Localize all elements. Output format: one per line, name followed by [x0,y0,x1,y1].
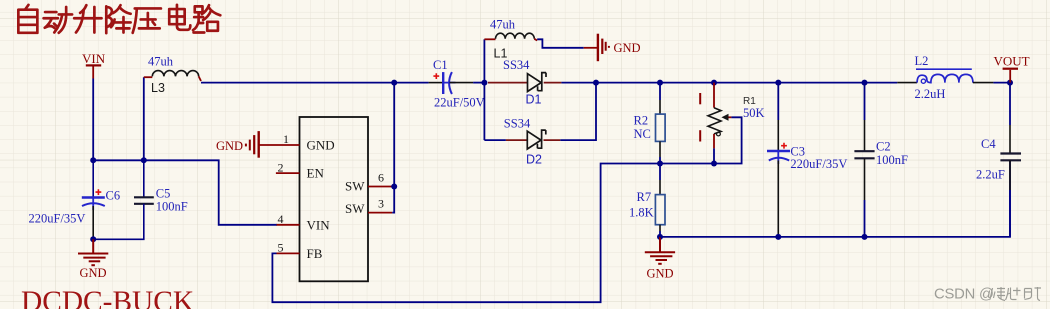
node junction R1 bottom [711,161,717,167]
svg-text:2: 2 [278,160,284,174]
svg-text:47uh: 47uh [148,55,174,69]
svg-text:CSDN @: CSDN @ [934,286,994,302]
op IC U1 body [300,117,369,281]
plus sign of C1 [433,73,439,79]
ground earth symbol left [78,239,108,265]
node junction R7 bottom rail [657,234,663,240]
svg-text:C4: C4 [981,137,996,151]
pin 1 GND [259,144,300,146]
svg-text:DCDC-BUCK: DCDC-BUCK [21,286,194,309]
node junction L3/C5 [141,157,147,163]
svg-text:220uF/35V: 220uF/35V [29,212,86,226]
node junction rail/R1 [711,80,717,86]
wire VIN vertical [92,79,94,161]
capacitor C2 [854,83,874,237]
wire R2 bottom to pot [660,163,714,165]
wire D2 branch left [484,139,506,141]
svg-text:GND: GND [307,138,335,153]
node junction C3 bottom [775,234,781,240]
svg-text:GND: GND [614,41,641,55]
svg-text:1: 1 [283,132,289,146]
wire L3 left leg [143,77,145,160]
pin 6 SW [368,186,392,188]
svg-text:D2: D2 [526,152,542,166]
svg-text:R2: R2 [634,113,649,127]
node junction C6/C5 ground [90,236,96,242]
svg-text:C6: C6 [106,188,121,202]
wire R1 wiper return [714,117,742,163]
svg-text:FB: FB [307,246,323,261]
diode D1 SS34 [488,73,561,92]
wire L2 to VOUT [993,82,1010,84]
power symbol GND at L1 [584,34,609,62]
svg-text:GND: GND [80,266,107,280]
capacitor C6 polarized [82,160,105,239]
node junction D1/D2 cathodes [593,80,599,86]
node junction rail/SW riser [391,80,397,86]
capacitor C5 [93,160,154,239]
svg-text:2.2uH: 2.2uH [915,87,946,101]
node junction rail/C2 [862,80,868,86]
node junction C2 bottom [862,234,868,240]
svg-text:C1: C1 [433,58,448,72]
wire SW pins to top rail [392,83,394,213]
title 自动升降压电路 (drawn as strokes) [18,5,220,33]
svg-text:100nF: 100nF [156,199,188,213]
potentiometer R1 50K [700,83,731,164]
node junction rail/R2 [657,80,663,86]
svg-text:1.8K: 1.8K [629,205,654,219]
diode D2 SS34 [506,130,560,149]
wire top rail to L2 [596,82,897,84]
svg-text:GND: GND [647,267,674,281]
svg-text:SW: SW [345,179,365,194]
svg-text:220uF/35V: 220uF/35V [790,157,847,171]
power port VIN [82,51,106,79]
node junction VOUT [1007,80,1013,86]
wire D2 cathode up to node [560,83,596,141]
svg-text:SS34: SS34 [503,58,530,72]
svg-text:3: 3 [378,197,384,211]
node junction R2/FB [657,161,663,167]
svg-text:50K: 50K [743,106,765,120]
svg-text:L2: L2 [915,54,929,68]
power port VOUT [994,53,1030,82]
inductor L2 [897,69,993,83]
resistor R2 [656,83,666,164]
wire L1 left leg / D2 left leg [483,39,485,140]
svg-text:NC: NC [634,127,651,141]
svg-text:SW: SW [345,201,365,216]
svg-text:C2: C2 [876,139,891,153]
wire bottom rail [660,160,1010,237]
node junction pin6 SW [391,184,397,190]
svg-text:47uh: 47uh [490,17,516,31]
plus sign of C6 [96,189,102,195]
svg-text:100nF: 100nF [876,153,908,167]
node junction VIN/C6 [90,157,96,163]
svg-text:VIN: VIN [82,51,106,66]
capacitor C4 [1000,83,1021,237]
wire FB net from pin 5 [272,164,660,303]
inductor L1 [484,33,537,40]
resistor R7 [655,164,665,237]
node junction rail/C3 [775,80,781,86]
svg-text:VOUT: VOUT [994,53,1030,68]
svg-text:2.2uF: 2.2uF [976,168,1005,182]
watermark CSDN [934,286,1041,302]
wire L3 to C1 rail [201,82,429,84]
svg-text:22uF/50V: 22uF/50V [434,96,485,110]
power symbol GND at pin 1 [246,131,259,158]
capacitor C3 polarized [767,83,790,237]
svg-text:VIN: VIN [307,217,331,232]
svg-text:D1: D1 [526,93,542,107]
wire VIN horizontal run to IC pin 4 [93,160,277,225]
svg-text:L3: L3 [151,81,165,95]
svg-text:4: 4 [278,212,284,226]
capacitor C1 polarized [429,72,485,94]
wire D1 cathode to node [561,82,596,84]
ground earth symbol right [645,237,675,264]
pin 5 FB [277,252,300,254]
wire L1 to GND [537,39,584,48]
svg-text:SS34: SS34 [504,117,531,131]
pin 2 EN [276,172,300,174]
svg-text:R7: R7 [637,190,652,204]
svg-text:6: 6 [378,170,384,184]
pin 3 SW [368,212,392,214]
inductor L3 [144,71,201,81]
svg-text:GND: GND [216,139,243,153]
svg-text:EN: EN [307,166,325,181]
pin 4 VIN [277,224,300,226]
plus sign of C3 [781,143,787,149]
node junction C1/L1/D1/D2 [481,80,487,86]
svg-text:5: 5 [278,241,284,255]
